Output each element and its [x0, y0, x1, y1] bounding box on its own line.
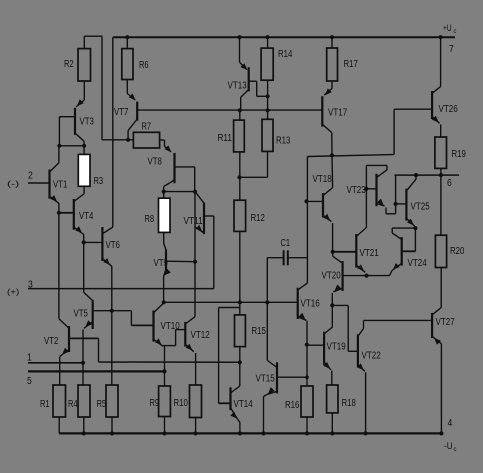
- svg-text:VT10: VT10: [161, 321, 181, 332]
- svg-text:5: 5: [27, 376, 32, 387]
- wire VT6 emitter down to R5: [111, 266, 113, 385]
- wire VT5 emitter down to R4: [82, 330, 84, 386]
- wire VT23 collector diag: [377, 170, 388, 178]
- wire VT1 collector up to node: [58, 146, 60, 163]
- junction dot (332,37): [330, 35, 334, 39]
- wire base up to dot: [414, 228, 416, 251]
- svg-text:R20: R20: [450, 246, 465, 257]
- junction dot (415,228): [413, 226, 417, 230]
- wire VT16 collector diag: [298, 283, 308, 290]
- wire VT15 collector diag: [267, 360, 277, 367]
- wire VT18 base: [307, 200, 324, 202]
- svg-text:VT2: VT2: [44, 336, 59, 347]
- wire VT8 base right: [175, 166, 195, 168]
- emitter arrowhead (414,226): [407, 219, 414, 226]
- wire base jog down: [256, 81, 258, 96]
- wire R18 bottom stub: [331, 413, 333, 434]
- junction dot (332,305): [330, 303, 334, 307]
- transistor VT2 bar: [68, 326, 70, 352]
- transistor VT18 bar: [322, 193, 324, 217]
- junction dot (396,204): [394, 202, 398, 206]
- wire C1 left down to node: [266, 258, 268, 303]
- wire VT1 collector diag: [50, 163, 59, 172]
- wire R15 bottom down: [239, 347, 241, 387]
- svg-text:R9: R9: [150, 398, 160, 409]
- wire jog down: [130, 311, 132, 326]
- svg-text:VT20: VT20: [322, 271, 342, 282]
- wire to VT25 emitter dot: [392, 227, 415, 229]
- emitter arrowhead (237,419): [230, 412, 237, 419]
- wire VT19 base: [307, 344, 324, 346]
- wire VT25 collector diag: [406, 179, 416, 191]
- svg-text:VT3: VT3: [80, 117, 95, 128]
- svg-text:R5: R5: [97, 399, 107, 410]
- svg-text:R12: R12: [251, 213, 266, 224]
- wire +U top rail: [113, 36, 455, 38]
- junction dot (333,252): [331, 250, 335, 254]
- svg-text:VT12: VT12: [191, 330, 211, 341]
- transistor VT14 bar: [229, 387, 231, 410]
- wire to R7 left: [102, 139, 133, 141]
- wire VT13 emitter from rail: [239, 37, 241, 62]
- wire VT20 emitter diag: [333, 288, 342, 291]
- wire VT8 emitter diag: [165, 146, 172, 152]
- wire VT4 emitter down to VT5 collector: [83, 235, 85, 293]
- wire VT1 emitter diag: [50, 196, 59, 203]
- transistor VT19 bar: [323, 332, 325, 365]
- wire VT20 base right: [343, 275, 367, 277]
- emitter arrowhead (57,202): [50, 195, 57, 202]
- wire VT10 emitter diag: [154, 339, 164, 346]
- transistor VT22 bar: [357, 334, 359, 367]
- emitter arrowhead (136,100): [129, 94, 136, 101]
- junction dot (164,302): [162, 300, 166, 304]
- svg-text:VT1: VT1: [53, 180, 68, 191]
- junction dot (441,37): [439, 35, 443, 39]
- wire VT22 base: [348, 350, 358, 352]
- wire VT25 emitter diag: [406, 218, 414, 226]
- junction dot (195,262): [193, 260, 197, 264]
- wire VT3 base down: [58, 117, 60, 146]
- emitter arrowhead (334,291): [334, 285, 341, 292]
- wire VT8 collector down: [163, 187, 165, 192]
- junction dot (332,433): [330, 431, 334, 435]
- wire R6 top stub: [126, 37, 128, 48]
- junction dot (164,192): [162, 190, 166, 194]
- emitter arrowhead (77,106): [77, 99, 84, 106]
- wire emitter bend: [238, 419, 240, 422]
- resistor R8 (white): [159, 198, 171, 232]
- wire VT3 base left: [59, 116, 75, 118]
- wire emitter jog: [386, 213, 396, 215]
- transistor VT5 bar: [92, 300, 94, 329]
- wire bracket to VT14 base chain: [219, 307, 240, 309]
- wire jog up: [175, 330, 177, 346]
- wire R9 bottom stub: [164, 417, 166, 434]
- junction dot (332,155): [330, 153, 334, 157]
- svg-text:R11: R11: [218, 133, 233, 144]
- wire collector up to dot: [332, 252, 334, 256]
- resistor R10: [190, 385, 202, 418]
- wire VT18 collector up: [331, 155, 334, 187]
- wire VT5 base right to node: [93, 310, 112, 312]
- wire input pin3 line: [28, 288, 214, 290]
- transistor VT1 bar: [48, 170, 50, 199]
- wire VT17 collector diag: [322, 124, 332, 132]
- emitter arrowhead (164,276): [164, 269, 171, 276]
- junction dot (240,302): [238, 300, 242, 304]
- wire loop top: [366, 164, 387, 166]
- emitter arrowhead (247,70): [241, 63, 248, 70]
- junction dot (240,37): [237, 35, 241, 39]
- svg-text:6: 6: [447, 178, 452, 189]
- wire emitter bend: [264, 395, 267, 397]
- wire node R8 top: [164, 191, 195, 193]
- capacitor C1 left plate: [283, 250, 285, 265]
- transistor VT16 bar: [297, 288, 299, 319]
- wire base node up to output line: [395, 175, 397, 204]
- svg-text:R16: R16: [285, 400, 300, 411]
- wire up jog: [393, 109, 395, 154]
- wire jog right: [332, 304, 348, 306]
- svg-text:R19: R19: [452, 149, 467, 160]
- emitter arrowhead (192,351): [186, 344, 193, 351]
- wire VT22c to VT27 base: [364, 319, 433, 321]
- svg-text:VT25: VT25: [411, 202, 431, 213]
- wire VT1 emitter down to VT2: [58, 203, 60, 318]
- junction dot (367,276): [365, 274, 369, 278]
- wire VT22 emitter to rail: [365, 372, 367, 433]
- emitter arrowhead (202,232): [195, 225, 202, 232]
- junction dot (240,110): [238, 108, 242, 112]
- wire collector up to rail: [440, 37, 442, 86]
- svg-text:VT27: VT27: [436, 317, 456, 328]
- wire jog down: [347, 305, 349, 351]
- svg-text:VT24: VT24: [408, 258, 428, 269]
- resistor R14: [261, 48, 273, 80]
- junction dot (416,175): [414, 173, 418, 177]
- resistor R7: [133, 132, 159, 148]
- svg-text:VT4: VT4: [79, 211, 94, 222]
- wire VT16 emitter down to R16: [306, 321, 308, 387]
- wire VT13 emitter diag: [240, 62, 248, 69]
- resistor R18: [327, 385, 338, 413]
- wire VT20e node down to VT19 collector: [331, 305, 333, 326]
- wire R14 bottom to R13 top: [267, 80, 269, 119]
- wire VT18 collector diag: [323, 188, 333, 196]
- wire R6 bottom stub: [126, 80, 128, 94]
- emitter arrowhead (434,338): [434, 338, 441, 345]
- junction dot (196,433): [194, 431, 198, 435]
- wire VT14 collector diag: [231, 386, 240, 393]
- junction dot (307,433): [305, 431, 309, 435]
- junction dot (112,433): [110, 431, 114, 435]
- wire VT16 collector up long: [306, 157, 308, 283]
- transistor VT12 bar: [184, 322, 186, 347]
- transistor VT27 bar: [431, 313, 433, 338]
- emitter arrowhead (325,95): [325, 88, 332, 95]
- junction dot (441,175): [439, 173, 443, 177]
- wire R1 bottom to rail: [58, 417, 60, 433]
- wire VT7 collector diag: [128, 119, 137, 131]
- svg-text:1: 1: [27, 353, 32, 364]
- transistor VT3 bar: [74, 108, 76, 135]
- transistor VT6 bar: [101, 227, 103, 261]
- wire down: [164, 140, 166, 146]
- wire to VT12 base: [176, 329, 186, 331]
- wire VT20 base line right segment: [367, 275, 390, 277]
- wire VT9 base to node: [166, 260, 195, 263]
- junction dot (267,302): [265, 300, 269, 304]
- resistor R16: [301, 386, 313, 417]
- resistor R4: [78, 385, 90, 417]
- wire R3 bottom stub: [83, 186, 85, 194]
- emitter arrowhead (330,221): [323, 214, 330, 221]
- transistor VT25 bar: [405, 189, 407, 221]
- transistor VT26 bar: [431, 91, 433, 119]
- wire VT14 emitter to rail: [239, 422, 241, 433]
- svg-text:C1: C1: [281, 238, 291, 249]
- wire VT24 base right: [402, 250, 416, 252]
- wire long vertical VT8c/VT9b/VT12c: [194, 192, 196, 317]
- junction dot (307,377): [305, 375, 309, 379]
- wire VT19 emitter diag: [324, 363, 331, 370]
- emitter arrowhead (62,355): [62, 348, 69, 355]
- junction dot (83,363): [81, 361, 85, 365]
- junction dot (268,37): [266, 35, 270, 39]
- wire VT17 collector down: [331, 133, 333, 156]
- svg-text:VT23: VT23: [347, 185, 367, 196]
- svg-text:R7: R7: [142, 122, 152, 133]
- wire VT17c cross line: [307, 155, 394, 157]
- wire VT6 collector diag: [103, 227, 113, 233]
- junction dot (366,433): [364, 431, 368, 435]
- svg-text:R1: R1: [40, 399, 50, 410]
- wire VT15 emitter down to rail: [263, 397, 265, 434]
- wire VT16 emitter diag: [298, 317, 307, 321]
- emitter arrowhead (384,206): [377, 199, 384, 206]
- wire emitter jog: [163, 345, 176, 347]
- svg-text:VT13: VT13: [228, 81, 248, 92]
- wire up to R20 bottom: [440, 268, 442, 308]
- transistor VT20 bar: [342, 261, 344, 291]
- wire VT14 base: [219, 402, 231, 404]
- wire VT23 emitter diag: [377, 204, 385, 206]
- wire VT9 emitter diag: [164, 269, 166, 277]
- svg-text:2: 2: [28, 171, 33, 182]
- wire VT7 collector down: [127, 131, 129, 140]
- resistor R11: [234, 120, 245, 152]
- svg-text:VT17: VT17: [328, 108, 348, 119]
- junction dot (112,311): [110, 309, 114, 313]
- wire bracket horiz: [84, 35, 102, 37]
- wire VT15 emitter diag: [267, 391, 277, 394]
- junction dot (268,96): [266, 94, 270, 98]
- wire VT2 emitter diag: [60, 350, 69, 357]
- wire emitter to R19 top: [440, 125, 442, 138]
- wire VT22 emitter diag: [358, 365, 365, 371]
- svg-text:R18: R18: [342, 398, 357, 409]
- emitter arrowhead (110,265): [103, 258, 110, 265]
- wire pin1 line: [28, 362, 83, 364]
- wire VT23 base: [366, 188, 376, 190]
- junction dot (128,140): [126, 138, 130, 142]
- svg-text:R3: R3: [94, 176, 104, 187]
- transistor VT21 bar: [355, 234, 357, 268]
- wire to VT26 base: [394, 108, 432, 110]
- wire R8 bottom stub: [163, 232, 165, 243]
- wire loop down to base dot: [365, 165, 367, 188]
- svg-text:VT5: VT5: [74, 309, 89, 320]
- transistor VT10 bar: [152, 311, 154, 342]
- transistor VT23 bar: [375, 174, 377, 206]
- wire VT2 base right: [69, 337, 99, 339]
- wire output line: [395, 174, 460, 176]
- wire R11 bottom to R12 top: [239, 152, 241, 200]
- svg-text:VT22: VT22: [362, 351, 382, 362]
- wire VT7 base long line to VT17: [137, 109, 322, 111]
- wire VT12 collector diag: [185, 317, 195, 324]
- wire pin3 up to VT11 base: [213, 216, 215, 289]
- wire R16 bottom stub: [306, 417, 308, 433]
- wire VT12 emitter diag: [185, 344, 194, 351]
- wire VT3 collector to R3 top: [83, 141, 85, 154]
- svg-text:R15: R15: [252, 326, 267, 337]
- wire VT21 emitter diag: [356, 265, 365, 272]
- wire VT24 collector diag: [392, 233, 402, 239]
- svg-text:R17: R17: [344, 59, 359, 70]
- svg-text:VT26: VT26: [439, 104, 459, 115]
- wire VT5 emitter diag: [84, 322, 93, 329]
- emitter arrowhead (82,233): [75, 226, 82, 233]
- wire VT27 collector diag: [432, 308, 441, 315]
- resistor R15: [235, 315, 246, 347]
- resistor R5: [106, 385, 118, 417]
- junction dot (366,189): [364, 187, 368, 191]
- wire VT8 base down to node: [194, 167, 196, 192]
- svg-text:VT18: VT18: [313, 174, 333, 185]
- wire R5 bottom stub: [111, 417, 113, 433]
- wire VT21 collector diag: [356, 228, 366, 237]
- emitter arrowhead (305,320): [299, 313, 306, 320]
- wire jog up to dot: [395, 204, 397, 214]
- wire emitter stub: [414, 226, 416, 228]
- svg-text:VT8: VT8: [148, 157, 163, 168]
- svg-text:VT11: VT11: [184, 216, 204, 227]
- transistor VT24 bar: [401, 237, 403, 266]
- junction dot (84,433): [82, 431, 86, 435]
- resistor R17: [327, 48, 338, 81]
- resistor R1: [53, 385, 66, 417]
- wire VT15 base right: [277, 376, 307, 378]
- transistor VT9 bar: [165, 250, 167, 271]
- wire collector up: [363, 320, 365, 328]
- wire R2 bottom to VT3 emitter: [83, 81, 85, 100]
- wire long vertical x102 to R7 node: [101, 36, 103, 140]
- emitter arrowhead (268,394): [268, 387, 275, 394]
- svg-text:VT19: VT19: [327, 342, 347, 353]
- wire VT17 emitter diag: [324, 89, 332, 96]
- wire collector up: [415, 175, 417, 179]
- capacitor C1 right plate: [287, 250, 289, 265]
- resistor R20: [435, 235, 446, 267]
- junction dot (59,146): [57, 144, 61, 148]
- wire VT27 emitter diag: [432, 336, 441, 344]
- junction dot (127,37): [125, 35, 129, 39]
- wire C1 left lead: [267, 257, 283, 259]
- wire emitter bend to VT20 base line: [390, 271, 393, 276]
- emitter arrowhead (330,369): [323, 362, 330, 369]
- wire VT7 emitter diag: [127, 94, 135, 101]
- wire R8 top stub: [163, 192, 165, 199]
- wire R13 bottom: [267, 151, 269, 177]
- wire VT11 collector diag: [195, 192, 204, 204]
- junction dot (240,362): [238, 360, 242, 364]
- wire emitter down: [385, 208, 387, 214]
- wire VT13 collector diag: [241, 90, 249, 98]
- svg-text:R13: R13: [276, 136, 291, 147]
- wire R17 bottom stub: [331, 81, 333, 89]
- wire VT14 emitter diag: [231, 408, 238, 420]
- wire R11 top stub: [239, 110, 241, 120]
- svg-text:c: c: [454, 447, 457, 453]
- wire VT26 emitter diag: [432, 117, 440, 124]
- junction dot (164,433): [162, 431, 166, 435]
- junction dot (164,371): [162, 369, 166, 373]
- transistor VT17 bar: [321, 96, 323, 126]
- wire emitter down to R9: [164, 346, 166, 386]
- wire emitter down: [331, 293, 333, 305]
- wire VT8 collector diag: [164, 180, 175, 187]
- wire node to jog: [112, 310, 132, 312]
- wire VT2 emitter down to R1: [59, 357, 61, 386]
- wire pin5 line: [28, 370, 165, 372]
- wire VT3 emitter diag: [76, 100, 84, 107]
- emitter arrowhead (162,345): [155, 338, 162, 345]
- wire VT18 emitter diag: [323, 215, 331, 221]
- wire VT20 collector diag: [333, 256, 343, 263]
- svg-text:c: c: [454, 29, 457, 35]
- svg-text:VT14: VT14: [234, 399, 254, 410]
- svg-text:VT16: VT16: [301, 299, 321, 310]
- svg-text:3: 3: [28, 280, 33, 291]
- wire base jog down: [98, 338, 100, 362]
- wire VT9 emitter down: [163, 277, 165, 303]
- wire VT10 collector diag: [154, 303, 164, 313]
- wire VT24 emitter diag: [392, 263, 402, 270]
- wire down to VT14 base: [218, 308, 220, 404]
- wire R4 bottom stub: [83, 417, 85, 433]
- transistor VT13 bar: [248, 67, 250, 91]
- emitter arrowhead (364,370): [357, 363, 364, 370]
- junction dot (307,345): [305, 343, 309, 347]
- wire R19 bottom stub: [440, 168, 442, 175]
- svg-text:VT21: VT21: [360, 248, 380, 259]
- transistor VT15 bar: [276, 362, 278, 393]
- wire VT11 emitter diag: [195, 227, 204, 233]
- wire VT26 collector diag: [432, 87, 441, 94]
- wire node A horizontal: [59, 145, 84, 147]
- junction dot (264,433): [261, 431, 265, 435]
- svg-text:(+): (+): [7, 287, 19, 297]
- svg-text:4: 4: [448, 418, 453, 429]
- wire R7 right stub: [160, 139, 165, 141]
- svg-text:R14: R14: [278, 49, 293, 60]
- wire bias bus to R15 bottom node: [99, 361, 240, 363]
- svg-text:R10: R10: [174, 398, 189, 409]
- resistor R3 (white): [78, 154, 90, 186]
- wire R10 bottom stub: [195, 418, 197, 434]
